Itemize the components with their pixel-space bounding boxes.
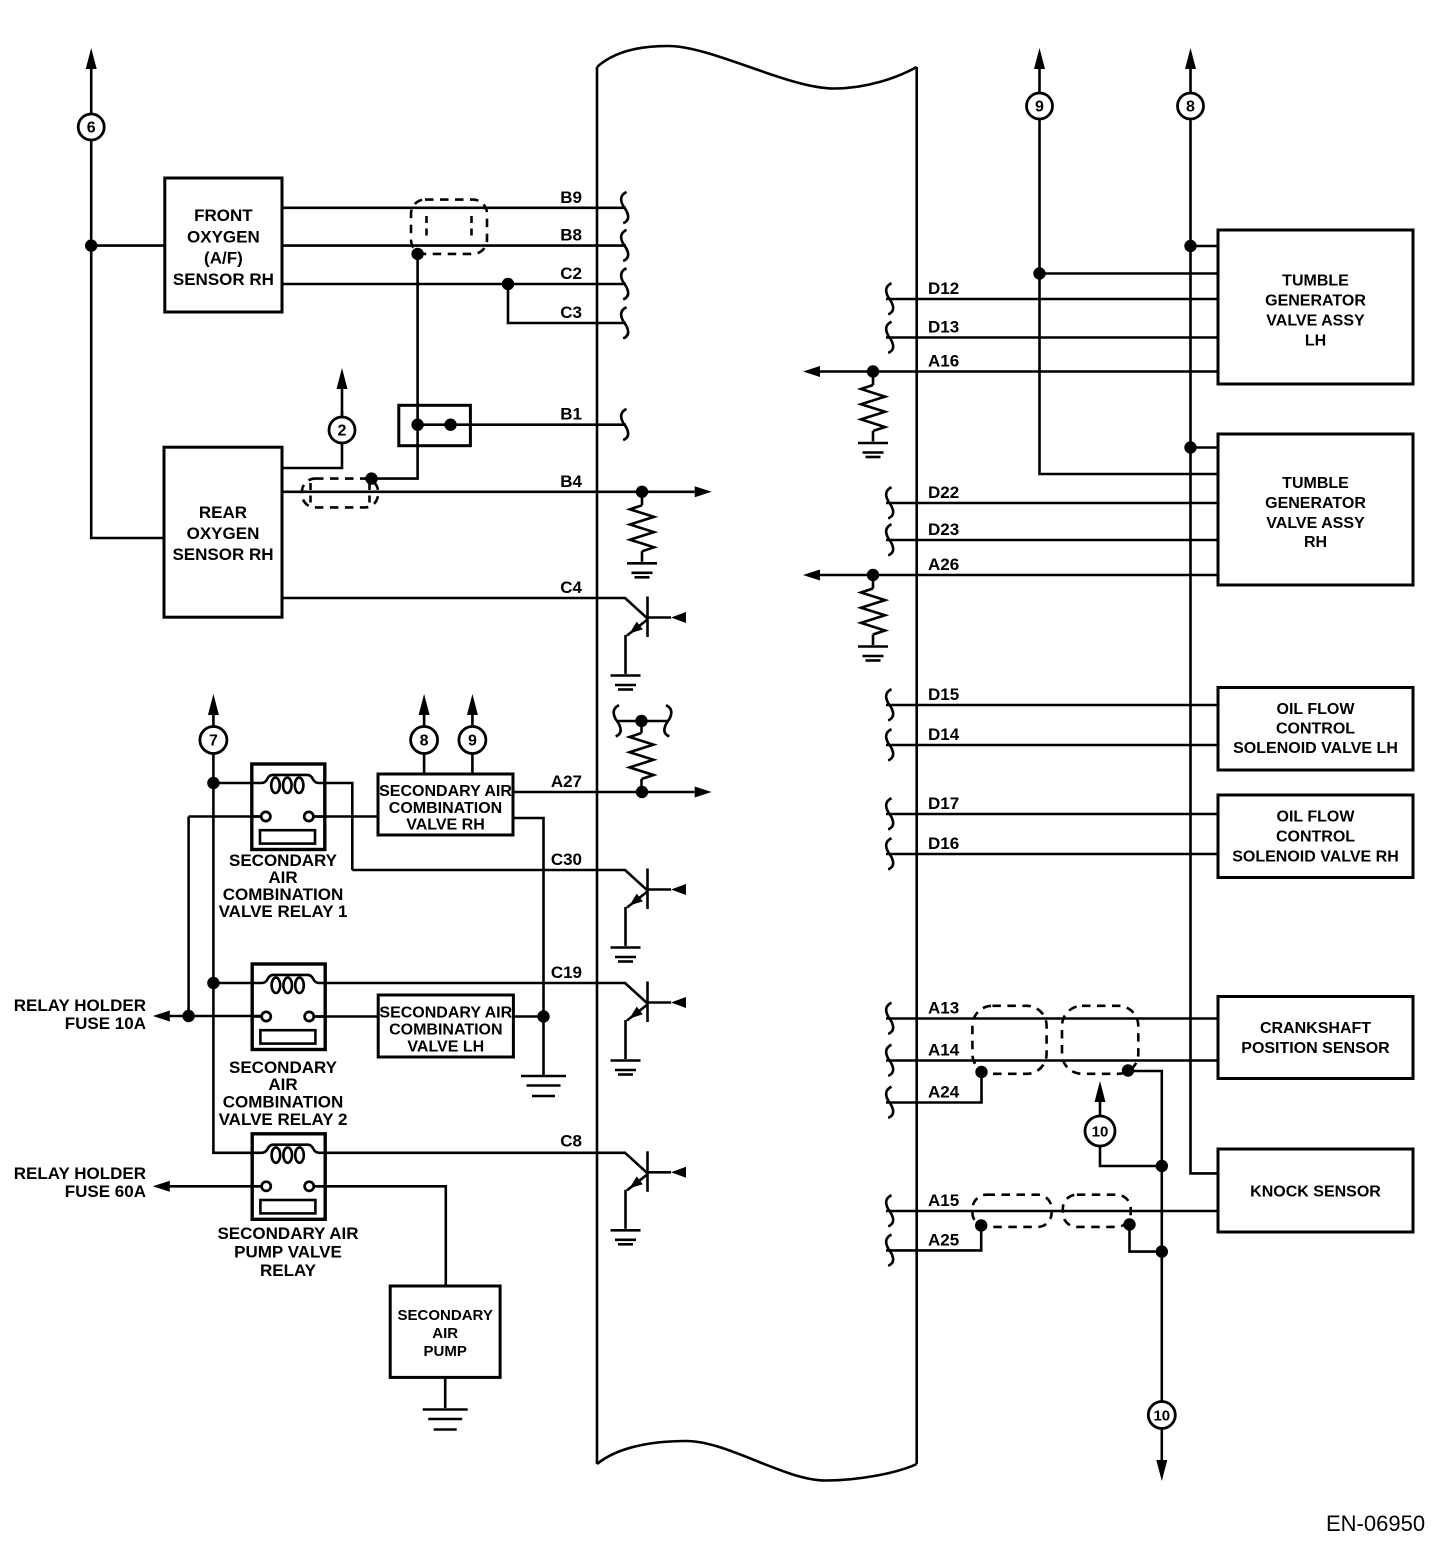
svg-text:D22: D22 <box>928 483 959 502</box>
wire shield A13/A14 to line 10 rail <box>1128 1071 1162 1166</box>
svg-text:EN-06950: EN-06950 <box>1326 1511 1425 1536</box>
wire relay 1 contact to secondary air combination valve RH <box>313 815 378 818</box>
node shield drain junction on B4 shield <box>365 472 377 484</box>
wire relay 2 coil feed <box>213 982 252 985</box>
relay SECONDARY AIR COMBINATION VALVE RELAY 2 <box>219 964 348 1129</box>
node junction line 8 / tumble LH <box>1184 240 1196 252</box>
node shield drain junction A15 left <box>975 1219 987 1231</box>
wire pin C4 <box>282 597 626 600</box>
component SECONDARY AIR COMBINATION VALVE RH <box>378 774 513 835</box>
connector circle 10 (middle) <box>1085 1116 1115 1146</box>
node shield drain junction on B9/B8 shield <box>411 248 423 260</box>
svg-text:AIR: AIR <box>268 1075 297 1094</box>
svg-text:REAR: REAR <box>199 503 247 522</box>
node junction internal net <box>635 715 647 727</box>
svg-text:9: 9 <box>1035 99 1044 116</box>
svg-text:SECONDARY AIR: SECONDARY AIR <box>379 783 512 800</box>
wire ECU connector band right edge <box>915 67 918 1464</box>
joint connector box (B1) <box>399 405 471 445</box>
arrow up connector 8 (right) <box>1185 48 1196 69</box>
shield (dashed) around B9/B8 pair <box>411 200 487 254</box>
wire pin C8 <box>324 1152 626 1155</box>
wire arrow stem 10 bottom <box>1161 1430 1164 1461</box>
wire relay 1 coil to ECU pin C30 <box>325 783 352 870</box>
svg-text:VALVE ASSY: VALVE ASSY <box>1266 313 1365 330</box>
wire relay 1 contact to fuse rail <box>189 817 261 1017</box>
wire pin D12 <box>886 298 1218 301</box>
node junction A16 / resistor <box>867 365 879 377</box>
wire line 10 vertical rail <box>1161 1166 1164 1401</box>
svg-text:SECONDARY AIR: SECONDARY AIR <box>217 1224 358 1243</box>
svg-text:C19: C19 <box>551 963 582 982</box>
svg-text:9: 9 <box>468 733 477 750</box>
wire line 8 to tumble generator valve assy RH <box>1191 446 1219 449</box>
wire pin A15 <box>886 1210 1218 1213</box>
wire arrow stem 2 <box>341 387 344 417</box>
connector squiggle D13 <box>886 322 893 353</box>
connector squiggle D17 <box>886 798 893 829</box>
connector circle 2 <box>329 417 355 443</box>
wire valve RH to ground rail <box>513 818 544 1076</box>
component FRONT OXYGEN (A/F) SENSOR RH <box>165 178 282 312</box>
svg-text:GENERATOR: GENERATOR <box>1265 293 1366 310</box>
node junction fuse rail <box>182 1010 194 1022</box>
connector squiggle D16 <box>886 838 893 869</box>
arrow up connector 9 (right) <box>1034 48 1045 69</box>
svg-text:VALVE RH: VALVE RH <box>406 817 485 834</box>
svg-text:7: 7 <box>209 733 218 750</box>
shield (dashed) around A15 left <box>973 1195 1052 1227</box>
shield (dashed) around B4 <box>302 479 378 508</box>
ECU band torn bottom edge <box>597 1441 917 1481</box>
component SECONDARY AIR PUMP <box>390 1286 500 1377</box>
resistor pull-down on A16 with ground <box>858 372 888 458</box>
connector squiggle D14 <box>886 729 893 760</box>
wire pin D15 <box>886 704 1218 707</box>
component CRANKSHAFT POSITION SENSOR <box>1218 997 1413 1079</box>
wire pin D22 <box>886 502 1218 505</box>
svg-text:(A/F): (A/F) <box>204 249 243 268</box>
connector squiggle A25 <box>886 1235 893 1266</box>
svg-text:AIR: AIR <box>432 1325 458 1342</box>
wire line 8 to tumble generator valve assy LH <box>1191 245 1219 248</box>
svg-text:OIL FLOW: OIL FLOW <box>1277 701 1356 718</box>
svg-text:D13: D13 <box>928 318 959 337</box>
svg-text:SOLENOID VALVE LH: SOLENOID VALVE LH <box>1233 740 1398 757</box>
svg-text:CONTROL: CONTROL <box>1276 829 1355 846</box>
svg-text:FRONT: FRONT <box>194 206 253 225</box>
component REAR OXYGEN SENSOR RH <box>164 447 282 617</box>
wire pin D14 <box>886 744 1218 747</box>
svg-text:A15: A15 <box>928 1191 959 1210</box>
svg-text:SECONDARY AIR: SECONDARY AIR <box>379 1005 512 1022</box>
svg-text:8: 8 <box>420 733 429 750</box>
node joint connector left terminal <box>411 419 423 431</box>
arrow right B4 (to next sheet) <box>695 486 712 497</box>
svg-text:10: 10 <box>1153 1408 1170 1425</box>
connector squiggle B1 <box>621 409 628 440</box>
svg-text:OIL FLOW: OIL FLOW <box>1277 809 1356 826</box>
svg-text:CRANKSHAFT: CRANKSHAFT <box>1260 1020 1371 1037</box>
svg-text:SENSOR RH: SENSOR RH <box>172 545 273 564</box>
svg-text:OXYGEN: OXYGEN <box>187 227 260 246</box>
wire pin B4 <box>282 490 695 493</box>
arrow left A26 <box>803 570 820 581</box>
wire arrow stem 10 <box>1100 1100 1162 1166</box>
svg-text:LH: LH <box>1305 333 1326 350</box>
ground (valve ground rail) <box>521 1076 566 1096</box>
wire pin D23 <box>886 539 1218 542</box>
node junction ground rail <box>537 1010 549 1022</box>
connector circle 10 (bottom) <box>1148 1402 1175 1429</box>
wire pin C3 branch <box>508 284 626 323</box>
ECU band torn top edge <box>597 46 917 89</box>
wire pin A25 (shield drain) <box>886 1226 981 1250</box>
svg-text:COMBINATION: COMBINATION <box>223 1093 344 1112</box>
svg-text:SOLENOID VALVE RH: SOLENOID VALVE RH <box>1232 849 1399 866</box>
wire relay 2 contact to secondary air combination valve LH <box>313 1015 378 1018</box>
arrow right A27 <box>695 787 712 798</box>
wire pin A24 (shield drain) <box>886 1072 982 1103</box>
arrow up connector 6 <box>86 48 97 69</box>
arrow up connector 9 (left) <box>467 694 478 715</box>
connector squiggle D15 <box>886 689 893 720</box>
arrow up connector 2 <box>337 368 348 389</box>
wire pin A14 <box>886 1059 1218 1062</box>
svg-text:SENSOR RH: SENSOR RH <box>173 270 274 289</box>
wire ECU connector band left edge <box>596 67 599 1464</box>
wire pin C19 <box>324 982 626 985</box>
node junction B4 / pull-down resistor <box>636 486 648 498</box>
component KNOCK SENSOR <box>1218 1149 1413 1232</box>
svg-text:D17: D17 <box>928 794 959 813</box>
node junction C2/C3 branch <box>502 278 514 290</box>
svg-text:POSITION SENSOR: POSITION SENSOR <box>1241 1040 1390 1057</box>
connector squiggle A24 <box>886 1087 893 1118</box>
wire relay 3 contact to secondary air pump <box>313 1186 446 1286</box>
wire pin D17 <box>886 813 1218 816</box>
wire pin B8 <box>282 244 626 247</box>
connector squiggle D23 <box>886 524 893 555</box>
wire pin A13 <box>886 1017 1218 1020</box>
svg-text:A27: A27 <box>551 772 582 791</box>
node joint connector right terminal <box>444 419 456 431</box>
wire pin D13 <box>886 336 1218 339</box>
svg-text:A14: A14 <box>928 1041 960 1060</box>
component OIL FLOW CONTROL SOLENOID VALVE RH <box>1218 795 1413 878</box>
wire shield A15 to line 10 rail <box>1130 1225 1162 1252</box>
wire secondary air pump to ground <box>444 1377 447 1408</box>
relay SECONDARY AIR PUMP VALVE RELAY <box>217 1134 358 1280</box>
node junction rail / relay 1 coil <box>207 777 219 789</box>
connector squiggle A13 <box>886 1003 893 1034</box>
label RELAY HOLDER FUSE 10A <box>14 996 146 1033</box>
svg-text:COMBINATION: COMBINATION <box>389 1022 502 1039</box>
wire harness line 9 (right, vertical) <box>1040 68 1219 474</box>
wire net A26 (sensor ground with arrow) <box>820 574 1218 577</box>
wire B8 stub from rail to front oxygen sensor <box>91 244 165 247</box>
arrow left to relay holder fuse 60A <box>153 1181 170 1192</box>
svg-text:6: 6 <box>87 120 96 137</box>
svg-text:D14: D14 <box>928 725 960 744</box>
svg-text:A13: A13 <box>928 999 959 1018</box>
svg-text:A26: A26 <box>928 555 959 574</box>
connector circle 8 (right) <box>1178 93 1204 119</box>
svg-text:C8: C8 <box>560 1131 582 1150</box>
resistor pull-down on B4 with ground <box>627 492 657 578</box>
svg-text:FUSE 60A: FUSE 60A <box>65 1182 146 1201</box>
svg-text:10: 10 <box>1092 1124 1109 1141</box>
arrow down connector 10 (bottom) <box>1156 1460 1167 1481</box>
svg-text:RH: RH <box>1304 534 1327 551</box>
svg-text:OXYGEN: OXYGEN <box>187 524 260 543</box>
shield (dashed twisted pair) around A13/A14 left <box>972 1006 1046 1074</box>
svg-text:FUSE 10A: FUSE 10A <box>65 1014 146 1033</box>
svg-text:CONTROL: CONTROL <box>1276 721 1355 738</box>
connector squiggle A15 <box>886 1195 893 1226</box>
connector circle 9 (right) <box>1027 93 1053 119</box>
svg-text:A24: A24 <box>928 1083 960 1102</box>
svg-text:COMBINATION: COMBINATION <box>389 800 502 817</box>
arrow left A16 <box>803 366 820 377</box>
svg-text:VALVE ASSY: VALVE ASSY <box>1266 515 1365 532</box>
node junction rail / relay 2 coil <box>207 977 219 989</box>
node shield drain junction A13/A14 left <box>975 1066 987 1078</box>
shield (dashed twisted pair) around A13/A14 right <box>1062 1006 1138 1074</box>
shield (dashed) around A15 right <box>1063 1195 1131 1227</box>
wire relay 1 coil feed <box>213 782 251 785</box>
component TUMBLE GENERATOR VALVE ASSY RH <box>1218 434 1413 585</box>
svg-text:2: 2 <box>338 423 347 440</box>
wire net A16 (sensor ground with arrow) <box>820 370 1218 373</box>
wire harness line 6 (vertical rail to rear oxygen sensor) <box>91 68 164 538</box>
wire pin B1 <box>418 423 626 426</box>
node junction A26 / resistor <box>867 569 879 581</box>
wire pin C30 <box>352 869 626 872</box>
arrow up connector 7 <box>208 694 219 715</box>
ground (secondary air pump) <box>423 1410 468 1430</box>
connector squiggle C2 <box>621 268 628 299</box>
wire pin A27 <box>513 791 695 794</box>
component SECONDARY AIR COMBINATION VALVE LH <box>378 995 513 1057</box>
svg-text:RELAY HOLDER: RELAY HOLDER <box>14 996 146 1015</box>
arrow left to relay holder fuse 10A <box>153 1011 170 1022</box>
wire internal net above A27 <box>617 720 668 723</box>
arrow up connector 10 (middle) <box>1095 1081 1106 1102</box>
wire arrow stem 9 left <box>471 713 474 774</box>
transistor Q1 (C4 driver, NPN with ground) <box>611 597 687 690</box>
node junction line 10 rail top <box>1156 1160 1168 1172</box>
svg-text:D15: D15 <box>928 685 959 704</box>
svg-text:D16: D16 <box>928 834 959 853</box>
node shield drain junction A15 right <box>1123 1218 1135 1230</box>
connector circle 8 (left) <box>411 727 438 754</box>
connector circle 7 <box>200 727 227 754</box>
component TUMBLE GENERATOR VALVE ASSY LH <box>1218 230 1413 384</box>
connector squiggle D22 <box>886 487 893 518</box>
svg-text:C3: C3 <box>560 303 582 322</box>
svg-text:VALVE RELAY 1: VALVE RELAY 1 <box>219 902 348 921</box>
node junction line 9 / tumble LH <box>1033 267 1045 279</box>
connector squiggle B8 <box>621 230 628 261</box>
wire pin D16 <box>886 853 1218 856</box>
svg-text:B1: B1 <box>560 405 582 424</box>
connector circle 9 (left) <box>459 727 486 754</box>
svg-text:PUMP VALVE: PUMP VALVE <box>234 1243 342 1262</box>
resistor internal (to A27) <box>640 721 643 733</box>
node shield drain junction A13/A14 right <box>1122 1064 1134 1076</box>
node junction line 10 rail bottom <box>1156 1245 1168 1257</box>
label RELAY HOLDER FUSE 60A <box>14 1164 146 1201</box>
resistor pull-down on A26 with ground <box>858 575 888 661</box>
svg-text:GENERATOR: GENERATOR <box>1265 495 1366 512</box>
wire valve LH to ground rail <box>513 1015 543 1018</box>
wire harness line 8 (right, vertical) <box>1191 68 1219 1173</box>
svg-text:SECONDARY: SECONDARY <box>398 1307 493 1324</box>
connector squiggle A14 <box>886 1045 893 1076</box>
svg-text:A16: A16 <box>928 352 959 371</box>
svg-text:8: 8 <box>1186 99 1195 116</box>
wire shield drain vertical through joint connector <box>372 254 418 479</box>
svg-text:C4: C4 <box>560 578 582 597</box>
wire relay holder fuse 10A feed <box>167 1015 262 1018</box>
transistor Q2 (C30 driver, NPN with ground) <box>611 869 687 962</box>
transistor Q4 (C8 driver, NPN with ground) <box>611 1151 687 1244</box>
transistor Q3 (C19 driver, NPN with ground) <box>611 982 687 1075</box>
relay SECONDARY AIR COMBINATION VALVE RELAY 1 <box>219 764 348 921</box>
svg-text:TUMBLE: TUMBLE <box>1282 273 1349 290</box>
svg-text:D12: D12 <box>928 279 959 298</box>
node junction on rail at B8 branch <box>85 239 97 251</box>
svg-text:RELAY HOLDER: RELAY HOLDER <box>14 1164 146 1183</box>
wire harness line 7 (vertical rail to relays) <box>213 714 252 1153</box>
svg-text:B8: B8 <box>560 226 582 245</box>
arrow up connector 8 (left) <box>419 694 430 715</box>
svg-text:KNOCK SENSOR: KNOCK SENSOR <box>1250 1184 1381 1201</box>
svg-text:D23: D23 <box>928 520 959 539</box>
connector squiggle B9 <box>621 192 628 223</box>
svg-text:B9: B9 <box>560 188 582 207</box>
wire arrow stem 8 left <box>423 713 426 774</box>
node junction line 8 / tumble RH <box>1184 441 1196 453</box>
svg-text:RELAY: RELAY <box>260 1261 317 1280</box>
svg-text:A25: A25 <box>928 1230 959 1249</box>
component OIL FLOW CONTROL SOLENOID VALVE LH <box>1218 688 1413 771</box>
connector squiggle internal net right (mirrored) <box>664 705 671 736</box>
svg-text:PUMP: PUMP <box>424 1343 467 1360</box>
wire to connector 2 from rear oxygen sensor <box>282 411 342 468</box>
svg-text:C30: C30 <box>551 850 582 869</box>
svg-text:B4: B4 <box>560 472 582 491</box>
connector squiggle internal net left <box>614 705 621 736</box>
svg-text:VALVE RELAY 2: VALVE RELAY 2 <box>219 1110 348 1129</box>
wire pin B9 <box>282 207 626 210</box>
svg-text:C2: C2 <box>560 264 582 283</box>
connector squiggle C3 <box>621 307 628 338</box>
wire relay holder fuse 60A feed <box>167 1185 262 1188</box>
wire pin C2 <box>282 283 626 286</box>
connector squiggle D12 <box>886 283 893 314</box>
wire line 9 to tumble generator valve assy LH <box>1040 272 1219 275</box>
node junction A27 / internal resistor <box>636 786 648 798</box>
svg-text:VALVE LH: VALVE LH <box>407 1039 484 1056</box>
connector circle 6 <box>78 114 104 140</box>
svg-text:TUMBLE: TUMBLE <box>1282 475 1349 492</box>
